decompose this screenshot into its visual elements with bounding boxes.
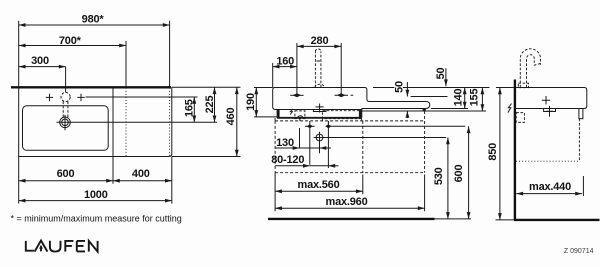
- extension line faucet level to 165 dim: [86, 96, 198, 98]
- svg-text:225: 225: [204, 96, 216, 114]
- dimension 530: [433, 138, 448, 219]
- water inlet dashed box side: [516, 113, 524, 123]
- dashed escutcheon front: [315, 84, 324, 87]
- furniture dashed box: [275, 111, 425, 173]
- water inlet dashed box front: [295, 111, 305, 119]
- top edge extension right: [373, 87, 490, 89]
- svg-text:* = minimum/maximum measure fo: * = minimum/maximum measure for cutting: [11, 214, 182, 224]
- extension line plan bottom right for 460: [172, 156, 241, 158]
- reference line 600 top: [328, 125, 465, 127]
- dimension 190: [245, 88, 257, 117]
- basin outline plan: [19, 87, 172, 156]
- dimension 980*: [19, 14, 170, 26]
- svg-text:130: 130: [276, 137, 294, 149]
- floor line side: [514, 219, 600, 221]
- lightning symbol front: [290, 109, 293, 115]
- furniture divider dashed (max.560): [362, 121, 364, 173]
- extension line left top: [18, 21, 20, 88]
- dimension 155: [468, 88, 482, 112]
- overflow box side: [579, 109, 583, 119]
- svg-text:max.960: max.960: [325, 196, 367, 208]
- svg-text:280: 280: [311, 35, 329, 47]
- channel right end cap: [359, 109, 362, 118]
- cutting line dotted 980: [169, 88, 171, 157]
- svg-text:160: 160: [276, 55, 294, 67]
- svg-text:140: 140: [453, 89, 465, 107]
- extension 190 bottom (foot line): [254, 116, 277, 118]
- dashed faucet pipe front: [315, 49, 321, 88]
- svg-text:155: 155: [468, 89, 480, 107]
- faucet alt position cross right: [77, 94, 84, 101]
- division line basin/shelf: [112, 87, 114, 156]
- dimension max.960: [275, 196, 425, 208]
- dimension 300: [19, 55, 66, 67]
- dimension 140: [453, 88, 465, 109]
- svg-text:850: 850: [487, 143, 499, 161]
- dimension 1000: [19, 189, 172, 201]
- logo arrow head: [39, 245, 43, 249]
- dimension 50 upper: [435, 68, 447, 87]
- svg-text:400: 400: [132, 168, 150, 180]
- drain cross side: [546, 106, 553, 117]
- dimension 50 step: [393, 80, 407, 118]
- svg-text:50: 50: [435, 68, 447, 80]
- svg-text:190: 190: [245, 93, 257, 111]
- rim extension left side: [496, 87, 514, 89]
- wall line: [514, 80, 516, 220]
- svg-text:600: 600: [57, 168, 75, 180]
- dimension 280: [297, 35, 341, 47]
- washbasin outline front: [273, 88, 430, 110]
- bowl rounded rectangle: [23, 106, 109, 151]
- extension 280 left / faucet line 1: [296, 43, 298, 95]
- drain vertical centerline: [64, 115, 66, 131]
- dashed drain drop side: [578, 119, 580, 162]
- reference line 530 top: [325, 137, 446, 139]
- faucet hole diamond 2: [337, 93, 346, 97]
- fixing screw diamond 1: [307, 124, 313, 128]
- wall line (thick back edge): [11, 86, 171, 88]
- dimension 80-120: [271, 154, 338, 166]
- dimension 600: [19, 168, 113, 181]
- dashed faucet base side: [518, 83, 528, 87]
- svg-text:980*: 980*: [82, 14, 105, 26]
- dimension 130: [275, 137, 331, 149]
- svg-text:700*: 700*: [59, 35, 82, 47]
- svg-text:300: 300: [31, 55, 49, 67]
- fixing screw line 1: [309, 121, 311, 165]
- drain cross front: [316, 104, 324, 113]
- dimension 160: [273, 55, 297, 67]
- 50 reference line: [411, 96, 448, 98]
- dimension max.440: [516, 181, 582, 194]
- faucet hole diamond 1: [293, 93, 302, 97]
- dimension 700*: [19, 35, 126, 47]
- svg-text:80-120: 80-120: [271, 154, 304, 166]
- svg-text:50: 50: [393, 81, 405, 93]
- faucet centerline from 300 dim: [65, 67, 67, 93]
- under channel thick line: [277, 117, 362, 119]
- dimension 600 vertical: [453, 126, 469, 219]
- fixing screw line 2: [327, 121, 329, 168]
- dimension 850: [487, 88, 500, 220]
- max.960 extensions: [424, 175, 426, 212]
- drain outer circle: [60, 117, 71, 128]
- max.440 right extension: [582, 176, 584, 196]
- cutting line dotted 700: [125, 88, 127, 157]
- extension lines below plan: [18, 157, 20, 204]
- dimension 400: [113, 168, 172, 181]
- overflow dashed box front: [322, 111, 361, 119]
- dashed spout end: [534, 63, 542, 65]
- rail line under ledge: [360, 110, 486, 112]
- svg-text:1000: 1000: [84, 189, 108, 201]
- extension line 980 right: [169, 21, 171, 88]
- svg-text:460: 460: [225, 108, 237, 126]
- svg-text:max.560: max.560: [297, 179, 339, 191]
- svg-text:600: 600: [453, 165, 465, 183]
- dimension 165: [184, 97, 196, 122]
- faucet hole dashed circle: [61, 92, 70, 101]
- svg-text:Z 090714: Z 090714: [564, 248, 594, 255]
- dashed faucet gooseneck outer: [520, 49, 540, 88]
- extension line plan top right for 225/460: [172, 86, 241, 88]
- lightning symbol side: [508, 104, 512, 113]
- faucet dashed tails to drain: [62, 102, 64, 118]
- extension 280 right / faucet line 2: [340, 43, 342, 95]
- floor extension right: [435, 218, 472, 220]
- svg-text:530: 530: [433, 167, 445, 185]
- inlet reference line: [299, 128, 301, 148]
- extension 190 top: [254, 87, 273, 89]
- dashed drops to furniture: [274, 118, 276, 121]
- max.560 extension: [362, 175, 364, 195]
- dimension max.560: [275, 179, 363, 191]
- drain inner circle: [62, 119, 69, 126]
- drain outlet circle mark: [314, 132, 326, 154]
- dashed faucet gooseneck inner: [527, 55, 535, 88]
- dimension 460: [225, 87, 237, 156]
- faucet alt position cross left: [46, 94, 53, 101]
- faucet cross side: [542, 96, 550, 104]
- LAUFEN logo: [26, 241, 98, 252]
- washbasin outline side: [516, 88, 587, 109]
- extension line 700 right: [125, 41, 127, 87]
- fixing screw diamond 2: [325, 124, 331, 128]
- extension 160 left: [272, 63, 274, 88]
- ledge bottom extension: [431, 108, 468, 110]
- floor line front: [268, 218, 435, 220]
- dimension 225: [204, 87, 216, 122]
- svg-text:max.440: max.440: [529, 181, 571, 193]
- drain recess side: [544, 109, 556, 112]
- drain recess front: [313, 110, 326, 112]
- mounting bracket foot left: [277, 110, 280, 118]
- floor extension left side: [496, 219, 515, 221]
- inlet arc: [297, 116, 303, 119]
- drain horizontal centerline extending to 225 dim: [57, 121, 218, 123]
- dotted furniture bottom side: [516, 160, 579, 162]
- svg-text:165: 165: [184, 99, 196, 117]
